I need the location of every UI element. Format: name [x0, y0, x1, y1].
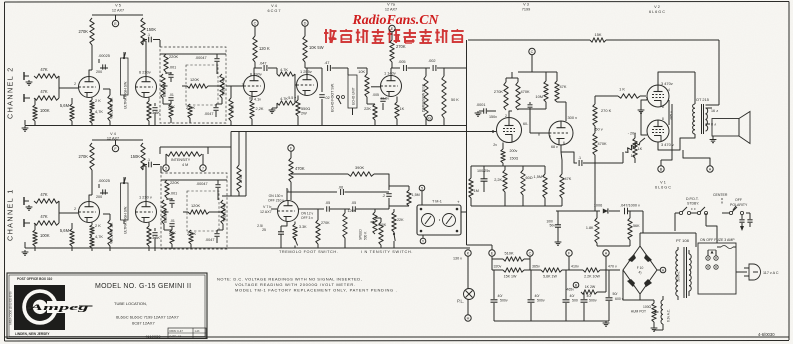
transformer OT primary	[693, 97, 709, 134]
resistor 47K b ch1	[34, 214, 59, 225]
svg-text:6C87 12AX7: 6C87 12AX7	[132, 321, 155, 326]
resistor 270K out ch2	[229, 92, 235, 126]
wire bias bus V3	[471, 166, 562, 206]
svg-text:1K: 1K	[638, 146, 643, 151]
resistor 10K 5W	[303, 36, 324, 62]
capacitor .01 ch1	[169, 219, 175, 230]
svg-text:5.5 v: 5.5 v	[288, 96, 296, 100]
capacitor .2	[382, 194, 392, 206]
svg-text:.00025: .00025	[98, 178, 110, 183]
svg-text:4.7K: 4.7K	[280, 68, 288, 72]
svg-text:50v: 50v	[550, 224, 556, 228]
resistor 4.7K ch2	[90, 109, 104, 126]
svg-text:ON 130 v: ON 130 v	[269, 194, 284, 198]
svg-text:MODEL NO. G-15 GEMINI II: MODEL NO. G-15 GEMINI II	[95, 283, 191, 290]
svg-text:40/: 40/	[587, 294, 592, 298]
resistor 47K phase	[560, 152, 572, 206]
text tube location	[114, 301, 147, 306]
capacitor .02 7199	[528, 102, 550, 133]
svg-text:T M-1: T M-1	[432, 200, 442, 204]
wire v7a plate	[391, 62, 400, 76]
svg-text:6 L 6 G C: 6 L 6 G C	[655, 186, 671, 190]
svg-text:PT 108: PT 108	[676, 238, 690, 243]
wire signal to V3	[231, 130, 496, 133]
potentiometer TREBLE 4M ch2	[218, 74, 226, 98]
wire screen bus	[518, 71, 557, 73]
svg-text:E: E	[114, 22, 117, 26]
capacitor .047/1000v	[620, 204, 643, 215]
capacitor .01 ch2	[168, 93, 174, 104]
terminal F v7b	[288, 145, 294, 158]
svg-text:40/: 40/	[498, 294, 503, 298]
input jack 1 ch2	[24, 72, 32, 85]
svg-text:2: 2	[505, 114, 507, 118]
resistor 2K ch1	[90, 223, 101, 237]
box TM-1	[417, 200, 461, 236]
svg-text:1-23: 1-23	[195, 330, 200, 333]
resistor 270K trem	[316, 209, 330, 248]
svg-text:60-: 60-	[523, 122, 529, 126]
capacitor .1 ch1	[143, 158, 160, 167]
wire switch drops	[675, 213, 717, 243]
wire trem osc top	[291, 173, 348, 175]
capacitor 40/500v d	[581, 292, 597, 321]
resistor 2K ch2	[90, 98, 101, 112]
text tube list 2	[132, 321, 155, 326]
resistor 2.2K v4a	[250, 97, 264, 127]
svg-text:BASS 1M: BASS 1M	[164, 208, 168, 223]
svg-text:F 10: F 10	[637, 266, 644, 270]
wire filter bus	[492, 262, 620, 270]
resistor 270K ts ch1	[187, 230, 196, 249]
svg-text:.00025: .00025	[98, 53, 110, 58]
svg-text:D.P.D.T.: D.P.D.T.	[686, 197, 699, 201]
svg-text:.1: .1	[147, 158, 150, 162]
wire grid join ch1	[59, 201, 78, 223]
resistor 220K ch1	[165, 180, 180, 198]
svg-text:200: 200	[96, 70, 102, 74]
resistor 10M 7199	[535, 72, 548, 109]
capacitor 100/50v	[546, 211, 561, 245]
wire bias to bridge	[640, 211, 643, 246]
svg-text:.01: .01	[170, 219, 175, 223]
resistor 47K b ch2	[34, 89, 59, 100]
potentiometer VOLUME 1M ch2	[103, 89, 114, 126]
resistor 22K trem2	[392, 209, 404, 232]
svg-text:A: A	[709, 168, 712, 172]
svg-text:.47: .47	[324, 60, 329, 65]
svg-text:D: D	[304, 22, 307, 26]
switch echo contacts	[337, 96, 345, 105]
svg-text:OT 215: OT 215	[696, 97, 709, 102]
wire v4b plate	[305, 62, 322, 75]
capacitor .05 b	[351, 201, 389, 212]
svg-text:TREBLE 4M: TREBLE 4M	[223, 203, 227, 222]
resistor 1.5M V3	[534, 166, 548, 206]
label echo foot switch	[331, 83, 335, 112]
label 465v	[669, 100, 674, 125]
svg-text:500v: 500v	[537, 299, 545, 303]
resistor 5.6M ch1	[60, 223, 74, 251]
bridge rectifier	[623, 246, 657, 294]
terminal 7 intensity	[200, 154, 206, 171]
svg-text:DATE: 4/6: DATE: 4/6	[170, 335, 182, 339]
svg-text:5: 5	[165, 167, 167, 171]
svg-text:7: 7	[202, 167, 204, 171]
wire grid join ch2	[59, 76, 78, 98]
svg-text:4610030: 4610030	[145, 334, 161, 339]
resistor 3.3K ch2	[147, 98, 161, 127]
svg-text:POST OFFICE BOX 310: POST OFFICE BOX 310	[17, 277, 52, 281]
switch polarity	[722, 207, 744, 215]
svg-text:550Ω: 550Ω	[301, 107, 310, 111]
svg-text:.00047: .00047	[196, 182, 208, 186]
capacitor cathode ch1	[152, 228, 157, 251]
svg-text:120K: 120K	[348, 209, 357, 213]
label plate voltage ch2B	[139, 70, 151, 75]
svg-text:40/: 40/	[570, 294, 575, 298]
input jack 1 ch1	[24, 197, 32, 210]
svg-text:270K: 270K	[78, 29, 88, 34]
tone stack dashed box ch1	[161, 173, 227, 249]
text drawing number	[145, 334, 161, 339]
resistor 1K lower grid	[595, 138, 645, 211]
tube V4b triode	[288, 69, 317, 100]
wire vertical left V3	[466, 40, 468, 245]
svg-text:470 v: 470 v	[608, 265, 617, 269]
svg-text:4,7K: 4,7K	[95, 234, 103, 239]
resistor 1K output	[633, 133, 643, 163]
wire vertical right OT	[706, 40, 720, 105]
svg-text:NOTE: D.C. VOLTAGE READINGS: NOTE: D.C. VOLTAGE READINGS WITH NO SIGN…	[217, 277, 362, 282]
svg-text:68 v: 68 v	[551, 145, 558, 149]
ground between tubes	[638, 100, 647, 135]
resistor 1M V3	[469, 166, 479, 206]
svg-text:510K: 510K	[504, 251, 513, 256]
capacitor polarity	[739, 213, 752, 231]
svg-text:RadioFans.CN: RadioFans.CN	[352, 13, 440, 28]
svg-text:ON OFF FUZE 3 AMP: ON OFF FUZE 3 AMP	[700, 238, 735, 242]
capacitor 40/500v b	[528, 270, 545, 321]
resistor 47K h a	[277, 68, 295, 76]
label INTENSITY SWITCH	[361, 250, 413, 254]
wire plate coupling	[518, 109, 546, 110]
svg-text:600 v: 600 v	[615, 297, 624, 301]
resistor 100K trem	[375, 218, 387, 248]
AC plug	[736, 264, 779, 280]
capacitor .0047 ch1	[205, 230, 220, 243]
potentiometer SPEED 500K	[359, 209, 378, 240]
capacitor .02 echo	[319, 68, 329, 126]
capacitor .001 ch1	[169, 192, 177, 209]
svg-text:LINDEN, NEW JERSEY: LINDEN, NEW JERSEY	[15, 332, 50, 336]
tone stack wires ch1	[161, 180, 227, 230]
svg-text:2 K: 2 K	[95, 223, 101, 228]
Ampeg logo	[14, 285, 93, 330]
ground bus channel 1	[25, 242, 470, 248]
tube V4a triode	[242, 72, 265, 102]
svg-text:H: H	[662, 269, 665, 273]
svg-text:.001: .001	[170, 192, 177, 196]
title block frame	[7, 273, 207, 339]
tube label V1 6L6GC	[655, 181, 671, 190]
svg-text:47K: 47K	[40, 192, 48, 197]
capacitor .0001	[475, 103, 496, 116]
svg-text:.2: .2	[382, 194, 385, 198]
input jack 2 ch1	[24, 219, 30, 227]
capacitor .002 v7a	[428, 58, 466, 71]
svg-text:500 K: 500 K	[364, 231, 368, 240]
switch contacts in box	[706, 250, 718, 269]
svg-text:8: 8	[662, 117, 664, 121]
terminal 5 intensity	[163, 154, 169, 171]
resistor 100K ch1	[33, 223, 50, 251]
svg-text:VOLUME 1M.: VOLUME 1M.	[110, 222, 114, 244]
svg-text:50/: 50/	[613, 292, 618, 296]
text area code	[9, 291, 13, 325]
svg-text:V 4: V 4	[110, 132, 116, 136]
svg-text:1 140v: 1 140v	[384, 71, 396, 76]
terminal B out	[658, 104, 672, 172]
svg-text:500: 500	[572, 299, 578, 303]
svg-text:ECHO UNIT: ECHO UNIT	[352, 87, 356, 105]
hum pot 100ohm	[631, 300, 659, 331]
svg-text:C: C	[531, 50, 534, 54]
resistor 120K v4a	[253, 36, 270, 62]
svg-text:OFF 210 v: OFF 210 v	[268, 199, 284, 203]
svg-text:TUBE LOCATION,: TUBE LOCATION,	[114, 301, 147, 306]
svg-text:120 K: 120 K	[259, 46, 270, 51]
svg-text:16 ∧: 16 ∧	[711, 109, 719, 113]
resistor 15K 1W	[503, 268, 524, 279]
resistor 1.5M trem	[389, 186, 420, 206]
label plate voltage ch1B	[139, 195, 152, 200]
svg-text:DIMENSION 500K: DIMENSION 500K	[422, 83, 426, 112]
PT secondary coil	[676, 250, 681, 296]
svg-text:470K: 470K	[295, 166, 305, 171]
svg-text:.01: .01	[169, 93, 174, 97]
ground bus channel 2	[25, 120, 466, 126]
diode 1006	[556, 204, 620, 214]
wire OT top	[658, 72, 695, 104]
svg-text:100K: 100K	[40, 233, 50, 238]
tube label V2 6L6GC	[649, 5, 665, 14]
text post office	[17, 277, 52, 281]
svg-text:1006: 1006	[594, 204, 602, 208]
svg-text:1K: 1K	[400, 106, 405, 111]
svg-text:25: 25	[262, 228, 266, 232]
svg-text:350VAC: 350VAC	[677, 270, 681, 282]
svg-text:31.8v: 31.8v	[380, 97, 389, 101]
svg-text:1 255v: 1 255v	[300, 69, 312, 74]
wire TM-1 plus	[461, 188, 467, 212]
tube V1 6L6 lower	[647, 117, 674, 147]
ground speaker	[710, 136, 717, 143]
capacitor 100/25v	[477, 166, 490, 192]
wire V3 cathode out	[561, 145, 577, 163]
title small table	[168, 328, 206, 339]
svg-text:15K 1W: 15K 1W	[504, 275, 517, 279]
tone stack inner dashed box ch1	[187, 191, 219, 231]
terminal C top	[252, 20, 258, 36]
terminal E psu	[489, 250, 495, 256]
resistor 4.7K ch1	[90, 234, 104, 251]
resistor 56K bias	[597, 211, 640, 246]
svg-text:V 1: V 1	[660, 181, 666, 185]
resistor 10K echo	[357, 68, 369, 104]
svg-text:6: 6	[563, 141, 565, 145]
box ECHO UNIT	[348, 68, 357, 115]
svg-text:2,2K: 2,2K	[494, 178, 502, 182]
resistor 47K 7199	[555, 72, 567, 102]
svg-text:117 v A C: 117 v A C	[763, 271, 779, 275]
svg-text:VOLUME 1M.: VOLUME 1M.	[110, 97, 114, 119]
resistor 470K bias	[593, 133, 607, 163]
capacitor .1 out	[578, 156, 595, 166]
svg-text:270K: 270K	[494, 89, 503, 94]
svg-text:G: G	[428, 117, 431, 121]
svg-text:6L6GC 6L6GC 7199 12AX7 12AX7: 6L6GC 6L6GC 7199 12AX7 12AX7	[116, 315, 179, 320]
svg-text:12 AX7: 12 AX7	[260, 210, 272, 214]
resistor 150K ch1	[130, 143, 145, 170]
svg-text:500v: 500v	[589, 299, 597, 303]
resistor 5.6K 1W	[541, 268, 562, 279]
wire v4b grid	[295, 74, 297, 103]
svg-text:470K: 470K	[598, 141, 607, 146]
tube V3 pentode	[489, 114, 529, 147]
ground channel 1	[22, 250, 29, 255]
resistor 1K upper grid	[595, 87, 646, 99]
wire psu ground bus	[494, 320, 609, 322]
resistor 2.2K V3	[494, 166, 507, 206]
svg-text:V 7a: V 7a	[387, 3, 396, 7]
svg-text:8: 8	[662, 105, 664, 109]
svg-text:8: 8	[249, 97, 251, 101]
svg-text:SPEED: SPEED	[359, 228, 363, 240]
svg-text:12 AX7: 12 AX7	[385, 8, 397, 12]
svg-text:320v: 320v	[494, 265, 502, 269]
svg-text:I N TENSITY SWITCH.: I N TENSITY SWITCH.	[361, 250, 413, 254]
svg-text:7: 7	[242, 83, 244, 87]
svg-text:200v: 200v	[510, 149, 518, 153]
svg-text:270K: 270K	[396, 44, 406, 49]
power transformer PT 108	[676, 238, 690, 243]
tremolo lamp	[422, 214, 435, 227]
svg-text:.005: .005	[398, 59, 406, 64]
svg-text:STDBY.: STDBY.	[687, 202, 699, 206]
svg-text:4,7K: 4,7K	[95, 109, 103, 114]
tube ch1 triode A	[79, 202, 100, 223]
text model no	[95, 283, 191, 290]
input jack 2 ch2	[24, 94, 30, 102]
svg-text:MODEL TM-1 FACTORY REPLACEM: MODEL TM-1 FACTORY REPLACEMENT ONLY, PAT…	[235, 288, 397, 293]
wire v4a plate	[254, 62, 262, 76]
PT core	[684, 247, 687, 298]
capacitor .00047 ch2	[195, 54, 220, 74]
svg-text:ON 12 v: ON 12 v	[301, 212, 313, 216]
terminal E v7a	[389, 25, 395, 40]
svg-text:6.3v A.C.: 6.3v A.C.	[667, 309, 671, 322]
transformer OT core	[702, 104, 704, 134]
resistor 270K out ch1	[237, 132, 243, 197]
wire plate ch1B	[143, 165, 146, 202]
svg-text:150K: 150K	[147, 27, 157, 32]
resistor 390K	[348, 165, 389, 190]
svg-text:CHANNEL 2: CHANNEL 2	[6, 66, 15, 119]
svg-text:INTENSITY: INTENSITY	[171, 158, 191, 162]
svg-text:4): 4)	[639, 271, 642, 275]
svg-text:BASS 1M: BASS 1M	[163, 82, 167, 97]
svg-text:47K: 47K	[565, 177, 572, 181]
svg-text:VOLTAGE READING WITH 20000Ω: VOLTAGE READING WITH 20000Ω /VOLT METER.	[235, 282, 356, 287]
tube V7a triode	[371, 71, 402, 101]
wire B+ feed top	[468, 39, 719, 41]
wire v7b plate	[286, 188, 288, 201]
resistor 150K ch2	[141, 18, 157, 45]
svg-text:200: 200	[96, 195, 102, 199]
terminal B bias	[566, 282, 578, 291]
svg-text:6 330v: 6 330v	[250, 72, 262, 77]
svg-text:470K: 470K	[521, 89, 530, 94]
resistor 100K ch2	[33, 98, 50, 126]
label CHANNEL 2	[6, 66, 15, 119]
capacitor .1 ch2	[143, 33, 160, 42]
resistor cathode 7199	[501, 143, 519, 167]
terminal C psu	[527, 250, 533, 256]
potentiometer TREBLE 4M ch1	[219, 200, 227, 224]
svg-text:365v: 365v	[532, 265, 540, 269]
text note line1	[217, 277, 362, 282]
svg-text:60Ω: 60Ω	[526, 176, 533, 180]
tube label V5	[112, 4, 124, 13]
resistor 60ohm V3	[521, 166, 533, 206]
svg-text:4 M: 4 M	[182, 163, 188, 167]
capacitor .00047 ch1	[196, 180, 221, 200]
ground channel 2	[22, 126, 29, 131]
wire plate ch2B	[143, 40, 146, 77]
svg-text:V 7 b: V 7 b	[263, 205, 271, 209]
capacitor 2.5/25	[257, 222, 287, 241]
resistor 3.3K trem	[293, 222, 307, 240]
resistor 22K echo	[364, 104, 377, 126]
svg-text:390K: 390K	[355, 165, 364, 170]
svg-text:4-6/0030: 4-6/0030	[758, 332, 775, 337]
svg-text:TREBLE 4M: TREBLE 4M	[222, 77, 226, 96]
svg-text:40/: 40/	[535, 294, 540, 298]
terminal C screen	[529, 48, 535, 72]
capacitor .0047 ch2	[204, 104, 219, 117]
resistor 120K trem	[343, 209, 357, 248]
svg-text:15K: 15K	[595, 32, 602, 37]
svg-text:120K: 120K	[191, 203, 200, 208]
potentiometer VOLUME 1M ch1	[103, 214, 114, 251]
svg-text:22K: 22K	[364, 106, 371, 111]
svg-text:2v: 2v	[493, 143, 497, 147]
terminal A out	[683, 150, 713, 172]
resistor 270K ch1	[78, 143, 94, 170]
svg-text:50 K: 50 K	[451, 98, 459, 102]
svg-text:3.3K: 3.3K	[299, 225, 307, 229]
svg-text:220K: 220K	[169, 54, 178, 59]
speaker	[712, 112, 750, 144]
capacitor .005 v7a	[398, 59, 430, 71]
wire OT bottom	[658, 134, 695, 150]
svg-text:B: B	[660, 168, 663, 172]
svg-text:2,2K: 2,2K	[256, 106, 264, 111]
switch ULTRA HIGH ch1	[121, 177, 129, 234]
svg-text:22K: 22K	[168, 104, 175, 109]
resistor 1.8K bias	[586, 211, 599, 246]
